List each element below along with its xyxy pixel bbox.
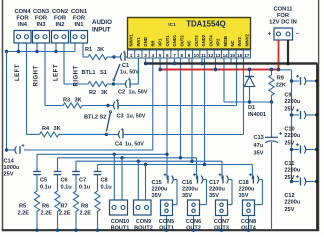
capacitor C11 2200u 25V [284,143,318,181]
svg-text:2.2E: 2.2E [41,211,53,217]
svg-text:1u, 50V: 1u, 50V [125,142,144,148]
svg-text:OUT4: OUT4 [241,225,257,231]
connector CON11 12V DC input [268,7,300,41]
wire CON11 + to red bus [277,40,280,71]
svg-text:VP1: VP1 [158,38,163,47]
wire ground bus overlay [145,62,318,64]
svg-text:RR: RR [150,40,155,46]
capacitor C4 1u 50V [107,58,244,148]
svg-text:3: 3 [144,53,147,58]
svg-text:22K: 22K [276,82,286,88]
svg-text:LEFT: LEFT [54,64,60,81]
svg-text:R3: R3 [63,98,70,104]
svg-text:35V: 35V [182,193,192,199]
svg-text:RIGHT: RIGHT [74,65,80,86]
svg-text:CON3: CON3 [33,9,50,15]
switch S1 BTL1 [82,55,121,85]
label AUDIO INPUT [92,19,112,34]
wire +12V bus (red) pins 5,13 [158,58,278,71]
wire pin15 NC stub [230,58,232,64]
svg-text:OUT3: OUT3 [194,35,199,47]
svg-text:35V: 35V [152,193,162,199]
svg-text:CON1: CON1 [71,9,88,15]
svg-text:1000u: 1000u [4,165,20,171]
svg-text:1u, 50V: 1u, 50V [120,70,139,76]
svg-text:OUT1: OUT1 [165,35,170,47]
capacitor C5 0.1u [33,154,52,190]
svg-text:GND2: GND2 [201,34,206,46]
svg-text:C13: C13 [254,135,264,141]
svg-text:NINV2: NINV2 [244,33,249,46]
svg-text:2200u: 2200u [284,168,300,174]
svg-text:CON9: CON9 [136,219,151,225]
svg-text:17: 17 [244,53,250,58]
switch S2 BTL2 [84,104,112,136]
wire pin4 RR down to C14 [24,58,153,150]
svg-text:25V: 25V [284,141,294,147]
svg-text:2200u: 2200u [182,187,198,193]
svg-text:35V: 35V [209,193,219,199]
svg-text:RIGHT: RIGHT [34,65,40,86]
svg-text:35V: 35V [254,151,264,157]
svg-text:IN2: IN2 [55,22,64,28]
svg-text:S1: S1 [100,70,107,76]
svg-text:INV2: INV2 [237,37,242,47]
svg-text:C4: C4 [115,142,123,148]
svg-text:R7: R7 [61,204,68,210]
connector CON5 OUT1 speaker output [159,200,174,232]
svg-text:FOR: FOR [73,16,86,22]
svg-text:C14: C14 [4,159,15,165]
wire CON11 - to ground bus [286,40,290,65]
resistor R8 2.2E [80,175,101,232]
svg-text:R9: R9 [277,76,284,82]
svg-text:0.1u: 0.1u [79,185,91,191]
capacitor C9 2200u 25V [284,75,318,113]
capacitor C15 2200u 35V [152,173,178,204]
connector CON10 BOUT1 bridge output [110,154,130,231]
svg-text:C12: C12 [284,193,294,199]
resistor R4 3K [40,126,107,137]
svg-text:NC: NC [187,40,192,46]
wire IN3 signal (RIGHT) to R3 [45,43,64,106]
svg-text:C9: C9 [284,93,291,99]
wire pin9 NC stub [188,58,190,64]
svg-text:9: 9 [188,53,191,58]
capacitor C17 2200u 35V [209,173,232,204]
connector CON1 (IN1 audio input) [71,9,88,43]
schematic frame border [2,0,4,230]
wire IN1 signal (RIGHT) to R1 [83,43,88,57]
capacitor C14 1000u 25V [4,144,25,178]
svg-text:2.2E: 2.2E [18,211,30,217]
svg-text:IN4001: IN4001 [248,112,266,118]
svg-text:BOUT1: BOUT1 [111,225,130,231]
svg-text:C15: C15 [152,180,162,186]
svg-text:25V: 25V [284,175,294,181]
op-amp IC1 TDA1554Q power amplifier [128,18,251,50]
svg-text:2200u: 2200u [209,187,225,193]
svg-text:CON6: CON6 [186,219,201,225]
svg-text:CON7: CON7 [214,219,229,225]
svg-text:TDA1554Q: TDA1554Q [186,19,225,28]
svg-text:C18: C18 [239,180,249,186]
svg-text:C5: C5 [40,178,47,184]
svg-text:C10: C10 [284,127,294,133]
wire +12V bus overlay [159,69,279,71]
svg-text:CON2: CON2 [52,9,68,15]
connector CON6 OUT2 speaker output [186,200,201,232]
svg-text:13: 13 [215,53,221,58]
svg-text:CON10: CON10 [111,219,129,225]
svg-text:2.2E: 2.2E [59,211,71,217]
capacitor C6 0.1u [54,158,73,191]
svg-text:8: 8 [180,53,183,58]
svg-text:1: 1 [130,53,133,58]
resistor R9 22K [269,68,286,102]
wire IN2 signal (LEFT) to R2 [64,43,88,84]
svg-text:6: 6 [166,53,169,58]
svg-text:10: 10 [194,53,200,58]
svg-text:C17: C17 [209,180,219,186]
svg-text:0.1u: 0.1u [40,185,52,191]
svg-text:C11: C11 [284,161,294,167]
svg-text:FOR: FOR [54,16,67,22]
svg-text:VP2: VP2 [216,38,221,47]
svg-text:C6: C6 [61,178,68,184]
svg-text:0.1u: 0.1u [101,185,113,191]
svg-text:C16: C16 [182,180,192,186]
svg-text:R2: R2 [89,90,96,96]
svg-text:BTL1: BTL1 [82,70,96,76]
svg-text:3K: 3K [75,98,82,104]
svg-text:2200u: 2200u [239,187,255,193]
svg-text:−: − [296,32,300,38]
svg-text:35V: 35V [239,193,249,199]
wire pin14 M/SB to D1/R9 node [224,58,273,104]
svg-text:IN3: IN3 [36,22,46,28]
wire OUT4 line from pin12 [98,58,253,180]
svg-text:OUT2: OUT2 [179,35,184,47]
svg-text:BTL2: BTL2 [84,115,98,121]
svg-text:BOUT2: BOUT2 [134,225,153,231]
wire OUT2 line from pin8 [58,58,197,180]
svg-text:CON8: CON8 [241,219,256,225]
svg-text:25V: 25V [284,207,294,213]
svg-text:47u: 47u [254,143,264,149]
wire input ground bus [5,43,75,53]
capacitor C16 2200u 35V [182,173,207,204]
svg-text:1u, 50V: 1u, 50V [127,114,146,120]
svg-text:7: 7 [173,53,176,58]
svg-text:2200u: 2200u [284,99,300,105]
svg-text:FOR: FOR [16,16,29,22]
capacitor C3 1u 50V [108,58,237,120]
wire ground rail right edge [316,64,318,231]
svg-text:R6: R6 [42,204,49,210]
svg-text:OUT2: OUT2 [186,225,201,231]
resistor R5 2.2E [18,175,40,232]
svg-text:NINV1: NINV1 [129,33,134,46]
svg-text:INV1: INV1 [136,37,141,47]
svg-text:M/SB: M/SB [223,36,228,46]
svg-text:15: 15 [230,53,236,58]
wire left ground rail to C14 [5,52,8,152]
svg-text:12: 12 [208,53,214,58]
svg-text:R8: R8 [81,204,88,210]
capacitor C2 1u 50V [114,58,148,96]
svg-text:12V DC IN: 12V DC IN [269,20,297,26]
resistor R1 3K [85,47,114,60]
svg-text:FOR: FOR [277,13,290,19]
svg-text:+: + [268,32,272,38]
svg-text:5: 5 [159,53,162,58]
svg-text:CON4: CON4 [14,9,31,15]
resistor R2 3K [88,81,114,96]
svg-text:FOR: FOR [35,16,48,22]
svg-text:R1: R1 [85,47,92,53]
svg-text:IC1: IC1 [168,22,176,28]
svg-text:14: 14 [223,53,229,58]
connector CON3 (IN3 audio input) [33,9,50,43]
wire OUT1 line from pin6 [37,58,169,180]
svg-text:1u, 50V: 1u, 50V [129,90,148,96]
svg-text:4: 4 [152,53,155,58]
connector CON9 BOUT2 bridge output [134,161,153,231]
svg-text:2.2E: 2.2E [80,211,92,217]
svg-text:NC: NC [230,40,235,46]
svg-text:2: 2 [137,53,140,58]
connector CON8 OUT4 speaker output [241,200,257,232]
capacitor C8 0.1u [94,165,113,191]
IC1 pin numbers 1-17 [128,50,251,58]
capacitor C13 47u 35V [254,102,283,230]
svg-text:IN4: IN4 [18,22,28,28]
capacitor C18 2200u 35V [239,173,263,204]
capacitor C7 0.1u [72,161,91,190]
capacitor C12 2200u 25V [284,175,318,213]
svg-text:2200u: 2200u [284,133,300,139]
wire ground bus (black) pins 3,7,11 to CON11- [144,58,317,65]
svg-text:GND1: GND1 [172,34,177,46]
svg-text:25V: 25V [284,107,294,113]
svg-text:3K: 3K [54,126,61,132]
svg-text:11: 11 [201,53,206,58]
diode D1 1N4001 [244,68,266,118]
svg-text:C8: C8 [101,178,108,184]
svg-text:3K: 3K [101,90,108,96]
svg-text:OUT4: OUT4 [208,35,213,47]
wire OUT3 line from pin10 [76,58,222,180]
svg-text:C3: C3 [117,114,124,120]
resistor R3 3K [63,98,108,109]
svg-text:R4: R4 [42,126,50,132]
capacitor C10 2200u 25V [284,109,318,147]
connector CON4 (IN4 audio input) [14,9,31,43]
svg-text:S2: S2 [100,115,107,121]
svg-text:IN1: IN1 [74,22,84,28]
svg-text:C2: C2 [118,90,125,96]
svg-text:3K: 3K [97,47,104,53]
connector CON7 OUT3 speaker output [214,200,229,232]
resistor R7 2.2E [59,175,79,232]
svg-text:GND: GND [143,37,148,46]
wire +12V feed to filter capacitor rail [279,70,292,182]
svg-text:OUT3: OUT3 [214,225,229,231]
connector CON2 (IN2 audio input) [52,9,69,43]
resistor R6 2.2E [41,175,61,232]
svg-text:16: 16 [237,53,243,58]
svg-text:C1: C1 [122,63,129,69]
svg-text:AUDIO: AUDIO [92,19,112,26]
wire IN4 signal (LEFT) to R4 [27,43,40,134]
svg-text:2200u: 2200u [152,187,168,193]
svg-text:D1: D1 [248,105,255,111]
svg-text:25V: 25V [4,172,14,178]
svg-text:R5: R5 [19,204,26,210]
svg-text:INPUT: INPUT [92,27,111,34]
svg-text:OUT1: OUT1 [159,225,174,231]
svg-text:0.1u: 0.1u [61,185,73,191]
svg-text:LEFT: LEFT [15,64,21,81]
svg-text:C7: C7 [79,178,86,184]
svg-text:CON5: CON5 [159,219,174,225]
capacitor C1 1u 50V [114,51,139,76]
svg-text:2200u: 2200u [284,200,300,206]
svg-text:CON11: CON11 [273,7,293,13]
